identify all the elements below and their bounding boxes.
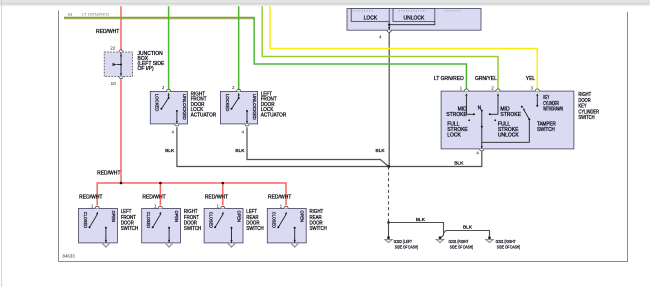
svg-text:1: 1: [91, 203, 94, 208]
svg-text:OPEN: OPEN: [110, 210, 116, 222]
svg-text:4: 4: [476, 151, 479, 156]
svg-text:STROKE: STROKE: [446, 112, 467, 118]
svg-text:2: 2: [232, 85, 235, 90]
svg-text:1: 1: [154, 203, 157, 208]
svg-text:OPEN: OPEN: [299, 210, 305, 222]
svg-text:SWITCH: SWITCH: [121, 226, 139, 232]
svg-text:LT GRN/RED: LT GRN/RED: [434, 76, 464, 82]
svg-text:22: 22: [110, 45, 116, 50]
svg-text:4: 4: [241, 130, 244, 135]
svg-text:N: N: [478, 106, 482, 112]
svg-text:RED/WHT: RED/WHT: [268, 195, 291, 201]
svg-text:BLK: BLK: [235, 148, 245, 154]
svg-text:UNLOCKED: UNLOCKED: [251, 94, 257, 121]
svg-text:RED/WHT: RED/WHT: [142, 195, 165, 201]
svg-text:10: 10: [111, 81, 117, 86]
svg-text:YEL: YEL: [526, 76, 536, 82]
svg-text:SWITCH: SWITCH: [246, 226, 264, 232]
svg-text:2: 2: [491, 85, 494, 90]
svg-text:3: 3: [531, 85, 534, 90]
svg-text:RED/WHT: RED/WHT: [205, 195, 228, 201]
svg-text:1: 1: [280, 203, 283, 208]
svg-text:RED/WHT: RED/WHT: [96, 29, 119, 35]
svg-text:RED/WHT: RED/WHT: [79, 195, 102, 201]
svg-text:CLOSED: CLOSED: [82, 212, 88, 229]
svg-text:UNLOCK: UNLOCK: [498, 132, 520, 138]
svg-text:SIDE OF DASH): SIDE OF DASH): [395, 245, 419, 250]
svg-text:STROKE: STROKE: [500, 112, 521, 118]
svg-text:OPEN: OPEN: [236, 210, 242, 222]
svg-text:2: 2: [162, 85, 165, 90]
svg-text:RED/WHT: RED/WHT: [97, 171, 120, 177]
svg-text:LOCK: LOCK: [364, 16, 378, 22]
svg-text:SIDE OF DASH): SIDE OF DASH): [450, 245, 474, 250]
svg-text:BLK: BLK: [376, 148, 386, 154]
svg-text:SIDE OF DASH): SIDE OF DASH): [497, 245, 521, 250]
svg-text:GRN/YEL: GRN/YEL: [475, 76, 497, 82]
svg-text:BLK: BLK: [416, 217, 426, 223]
svg-text:4: 4: [379, 35, 382, 40]
svg-text:1: 1: [216, 203, 219, 208]
svg-text:SWITCH: SWITCH: [184, 226, 202, 232]
svg-text:SWITCH: SWITCH: [537, 127, 555, 133]
svg-text:BLK: BLK: [463, 225, 473, 231]
svg-text:OF I/P): OF I/P): [138, 66, 154, 72]
svg-text:LOCKED: LOCKED: [154, 94, 160, 112]
svg-text:OPEN: OPEN: [173, 210, 179, 222]
svg-text:CLOSED: CLOSED: [145, 212, 151, 229]
svg-text:CLOSED: CLOSED: [271, 212, 277, 229]
svg-text:1: 1: [460, 85, 463, 90]
svg-text:LOCKED: LOCKED: [224, 94, 230, 112]
svg-text:G202 (LEFT: G202 (LEFT: [394, 239, 413, 244]
svg-text:SWITCH: SWITCH: [578, 115, 594, 121]
svg-text:WITHDRAWN: WITHDRAWN: [543, 106, 563, 112]
svg-text:BLK: BLK: [454, 161, 464, 167]
svg-text:CLOSED: CLOSED: [208, 212, 214, 229]
svg-text:LOCK: LOCK: [447, 132, 461, 138]
svg-text:ACTUATOR: ACTUATOR: [191, 112, 217, 118]
svg-text:84633: 84633: [63, 253, 76, 258]
svg-text:BLK: BLK: [165, 148, 175, 154]
svg-text:UNLOCK: UNLOCK: [403, 16, 425, 22]
svg-text:4: 4: [171, 130, 174, 135]
svg-text:SWITCH: SWITCH: [310, 226, 328, 232]
svg-text:UNLOCKED: UNLOCKED: [181, 94, 187, 121]
svg-text:ACTUATOR: ACTUATOR: [261, 112, 287, 118]
svg-text:G201 (RIGHT: G201 (RIGHT: [449, 239, 469, 244]
svg-text:G201 (RIGHT: G201 (RIGHT: [496, 239, 516, 244]
